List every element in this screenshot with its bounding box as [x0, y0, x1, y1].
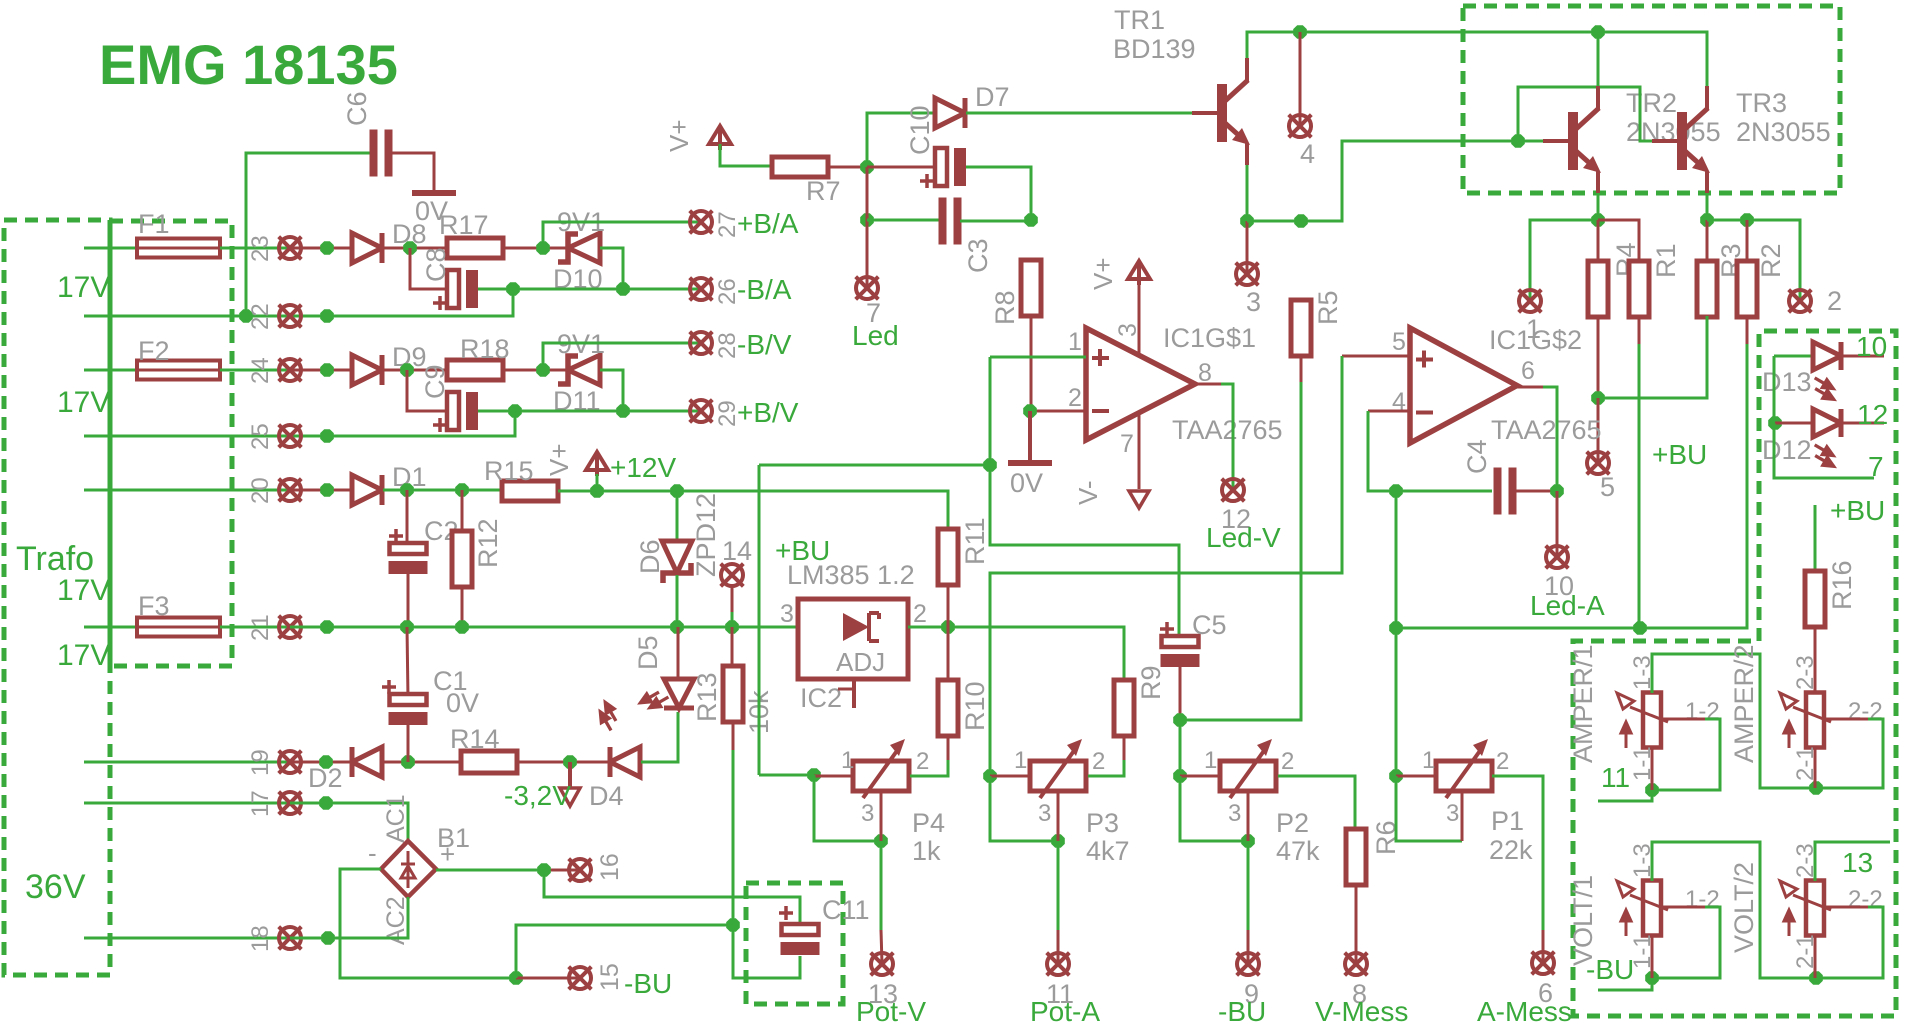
svg-text:3: 3 — [1246, 287, 1261, 317]
svg-text:1k: 1k — [912, 836, 941, 866]
zener D10 9V1 — [558, 233, 600, 263]
junction V+ 12V — [590, 484, 604, 498]
wire sense to P4 — [759, 774, 814, 777]
svg-text:C11: C11 — [822, 895, 870, 925]
op-amp IC1G$2 — [1410, 328, 1517, 443]
ground 0V G1 — [1008, 460, 1052, 466]
zener D11 9V1 — [558, 355, 600, 385]
svg-text:1-2: 1-2 — [1685, 886, 1720, 913]
wire P1 pin1 wire — [1396, 775, 1436, 778]
resistor R15 — [502, 481, 558, 501]
wire R7 to node — [828, 166, 867, 169]
svg-text:13: 13 — [1842, 847, 1873, 878]
svg-text:0V: 0V — [446, 688, 479, 718]
wire C1 top — [407, 627, 408, 698]
junction G1 pin2 — [1023, 404, 1037, 418]
svg-text:1: 1 — [841, 747, 854, 774]
svg-text:BD139: BD139 — [1113, 34, 1196, 64]
wire trafo to F3 — [84, 626, 137, 629]
wire pad16 pin — [544, 869, 580, 872]
svg-text:0V: 0V — [1010, 468, 1043, 498]
junction P4 pin3 — [874, 834, 888, 848]
svg-text:Led-V: Led-V — [1206, 522, 1281, 553]
wire A1 pin1-1 — [1651, 748, 1654, 790]
svg-text:D7: D7 — [975, 82, 1010, 112]
junction row21 R13 — [725, 620, 739, 634]
wire G1 out pin8 — [1195, 383, 1221, 386]
junction row19 pad — [319, 755, 333, 769]
potentiometer P4 — [853, 739, 909, 798]
wire C5 bottom — [1179, 667, 1182, 720]
svg-text:2: 2 — [1281, 748, 1294, 775]
resistor R6 — [1346, 829, 1366, 885]
wire R18 to D11 — [503, 369, 570, 372]
wire pad16 node to C11 plus — [544, 870, 800, 922]
wire G2 out — [1543, 387, 1557, 491]
wire pad15 pin — [516, 977, 580, 980]
svg-text:F3: F3 — [138, 591, 170, 621]
trimmer VOLT/1 — [1617, 881, 1668, 937]
pad 26 — [690, 278, 713, 301]
frame TR2 TR3 box (dashed) — [1463, 6, 1840, 193]
svg-text:C3: C3 — [963, 238, 993, 273]
svg-text:2-2: 2-2 — [1848, 698, 1883, 725]
svg-text:-3,2V: -3,2V — [504, 780, 571, 811]
junction TR2 base — [1511, 134, 1525, 148]
svg-text:TAA2765: TAA2765 — [1491, 415, 1602, 445]
pad 10 — [1546, 546, 1569, 569]
junction R5 top — [1294, 214, 1308, 228]
wire TR2-TR3 collector — [1598, 32, 1707, 86]
svg-text:21: 21 — [247, 614, 274, 641]
wire A2 wiper — [1816, 719, 1883, 788]
svg-text:16: 16 — [596, 853, 624, 881]
wire C1 bottom — [407, 725, 410, 762]
svg-text:Pot-A: Pot-A — [1030, 996, 1100, 1027]
wire R2 top pin — [1746, 220, 1749, 262]
junction -3.2V — [563, 755, 577, 769]
wire trafo row18 — [84, 937, 328, 940]
wire R11 bottom — [947, 585, 950, 627]
trimmer VOLT/2 — [1780, 881, 1831, 937]
wire R15 to R11 — [558, 491, 948, 530]
diode D7 — [935, 98, 965, 128]
junction V1 bottom — [1645, 971, 1659, 985]
svg-text:2: 2 — [1496, 748, 1509, 775]
svg-text:2-3: 2-3 — [1792, 655, 1819, 690]
wire R2 branch — [1707, 220, 1800, 301]
wire R14 to D4 — [517, 761, 610, 764]
svg-text:C8: C8 — [421, 247, 451, 282]
bridge B1 — [381, 841, 436, 897]
wire D6 top pin — [676, 491, 679, 542]
svg-text:C5: C5 — [1192, 610, 1227, 640]
wire G2 plus net — [990, 356, 1342, 776]
trimmer AMPER/1 — [1617, 693, 1668, 749]
svg-text:R14: R14 — [450, 724, 500, 754]
wire R6 to pad8 — [1355, 885, 1358, 964]
pad 27 — [690, 211, 713, 234]
capacitor C4 — [1494, 468, 1517, 515]
svg-text:2: 2 — [1068, 384, 1082, 412]
svg-text:V+: V+ — [1088, 257, 1118, 290]
junction R12 top — [455, 483, 469, 497]
svg-text:3: 3 — [780, 600, 794, 628]
wire +BU link — [1396, 627, 1640, 630]
svg-text:17V: 17V — [57, 386, 110, 419]
svg-text:1: 1 — [1014, 747, 1027, 774]
svg-text:R7: R7 — [806, 176, 841, 206]
wire pad9 pin — [1247, 930, 1250, 964]
svg-text:C4: C4 — [1462, 439, 1492, 474]
svg-text:47k: 47k — [1276, 836, 1320, 866]
wire LM385 pin2 to R9 — [908, 627, 1124, 682]
svg-text:P4: P4 — [912, 808, 945, 838]
wire row22 — [84, 289, 513, 316]
wire row21 main — [290, 626, 798, 629]
wire V1 wiper — [1652, 907, 1720, 978]
wire pad5 stem — [1597, 398, 1600, 463]
wire row25 — [84, 411, 515, 436]
svg-text:Pot-V: Pot-V — [856, 996, 926, 1027]
svg-text:VOLT/1: VOLT/1 — [1568, 875, 1598, 966]
pad 7 — [856, 277, 879, 300]
wire sense down — [758, 465, 761, 775]
junction row24 — [320, 363, 334, 377]
wire pad17 to B1 AC1 — [290, 803, 408, 844]
potentiometer P3 — [1030, 739, 1086, 798]
svg-text:1-2: 1-2 — [1685, 698, 1720, 725]
wire A1 wiper — [1652, 719, 1720, 790]
svg-text:R11: R11 — [960, 517, 990, 565]
wire C4 right wire — [1516, 490, 1556, 493]
IC2 LM385 body — [798, 599, 908, 679]
capacitor C11 — [779, 906, 820, 955]
wire A2 wiper pin — [1826, 718, 1868, 721]
svg-text:TR1: TR1 — [1114, 5, 1165, 35]
svg-text:3: 3 — [1446, 800, 1459, 827]
junction R13 -BU — [726, 918, 740, 932]
wire pad11 pin — [1057, 930, 1060, 964]
resistor R7 — [772, 157, 828, 177]
wire C2 bottom — [407, 574, 410, 627]
zener D6 ZPD12 — [662, 541, 692, 583]
junction row22 C6 — [239, 309, 253, 323]
wire node to C10 — [867, 166, 946, 169]
svg-text:3: 3 — [1038, 800, 1051, 827]
wire P3 loop — [990, 776, 1058, 841]
wire D9 node to C9 — [407, 370, 446, 411]
wire V2 top stub 13 — [1815, 842, 1890, 881]
wire TR2 base pin — [1518, 140, 1544, 143]
wire C3 left wire — [867, 219, 940, 222]
frame fuse box (dashed) — [110, 221, 232, 666]
svg-text:1: 1 — [1204, 747, 1217, 774]
wire V+12V stem — [596, 474, 599, 491]
svg-text:R5: R5 — [1313, 290, 1343, 325]
wire +B/A branch — [543, 222, 701, 248]
junction pad4 — [1293, 25, 1307, 39]
svg-text:7: 7 — [1868, 451, 1884, 482]
wire to TR23 base — [1301, 141, 1519, 221]
wire pad20 to D1 — [290, 489, 352, 492]
pad 12 — [1222, 479, 1245, 502]
wire C6 right to gnd — [392, 153, 434, 190]
svg-text:ADJ: ADJ — [836, 647, 885, 677]
wire A1 stub 11 — [1598, 790, 1652, 801]
svg-text:25: 25 — [247, 423, 274, 450]
led D5 — [638, 679, 694, 714]
wire G1 out to pad12 — [1221, 384, 1233, 490]
svg-text:-B/V: -B/V — [737, 329, 792, 360]
wire F3 to pad 21 — [220, 626, 302, 629]
wire P2 pin1 wire — [1180, 775, 1220, 778]
junction pad16 — [537, 863, 551, 877]
wire R16 bottom — [1814, 627, 1817, 694]
svg-text:1: 1 — [1422, 747, 1435, 774]
transistor TR1 BD139 — [1192, 58, 1250, 165]
junction R17-D10 — [536, 241, 550, 255]
junction C3 left — [860, 213, 874, 227]
svg-text:18: 18 — [247, 925, 274, 952]
potentiometer P2 — [1220, 739, 1276, 798]
wire pad10 stem — [1556, 491, 1559, 557]
wire G1 pin1 — [990, 356, 1086, 359]
wire TR3 emitter — [1706, 193, 1709, 221]
wire D5 top — [677, 627, 680, 679]
pad 4 — [1289, 115, 1312, 138]
svg-text:14: 14 — [722, 536, 752, 566]
svg-text:+BU: +BU — [1652, 439, 1707, 470]
op-amp IC1G$1 — [1086, 328, 1195, 440]
wire P3 pin1 wire — [990, 775, 1030, 778]
fuse F3 — [137, 618, 220, 637]
wire G2 pin5 — [1342, 355, 1410, 358]
svg-text:P1: P1 — [1491, 806, 1524, 836]
wire R3 top — [1706, 220, 1709, 262]
wire trafo row20 — [84, 489, 328, 492]
wire V+ to R7 — [720, 144, 772, 166]
diode D1 — [352, 475, 382, 505]
wire P4 pin1 wire — [814, 775, 854, 778]
svg-text:Trafo: Trafo — [16, 540, 94, 578]
svg-text:P3: P3 — [1086, 808, 1119, 838]
svg-text:R8: R8 — [990, 290, 1020, 325]
ground 0V at C6 — [412, 190, 456, 196]
resistor R2 — [1737, 261, 1757, 317]
wire P4 loop — [814, 775, 881, 841]
svg-text:+12V: +12V — [610, 452, 676, 483]
wire -B/V branch — [543, 343, 701, 370]
capacitor C1 — [382, 680, 428, 725]
wire R4 top — [1597, 220, 1600, 262]
wire D12 anode — [1775, 422, 1814, 425]
resistor R3 — [1697, 261, 1717, 317]
wire P1 pin2 to pad6 — [1492, 776, 1543, 930]
svg-text:17V: 17V — [57, 574, 110, 607]
svg-text:4k7: 4k7 — [1086, 836, 1130, 866]
junction C8 right — [506, 282, 520, 296]
svg-text:D2: D2 — [308, 763, 343, 793]
junction sense mid — [983, 458, 997, 472]
pad 11 — [1047, 953, 1070, 976]
svg-text:TAA2765: TAA2765 — [1172, 415, 1283, 445]
wire pin4 node to P1 — [1395, 628, 1398, 776]
led D4 — [594, 700, 640, 777]
wire V2 pin2-1 — [1814, 936, 1817, 978]
fuse F1 — [137, 239, 220, 258]
wire C3 right — [960, 220, 1031, 223]
transistor TR3 2N3055 — [1652, 86, 1710, 193]
junction R4 sense — [1591, 391, 1605, 405]
wire TR2 collector — [1597, 32, 1600, 86]
wire R13 bottom — [732, 750, 735, 925]
frame C11 box (dashed) — [746, 883, 843, 1004]
resistor R9 — [1114, 680, 1134, 736]
resistor R16 — [1805, 571, 1825, 627]
svg-text:IC2: IC2 — [800, 683, 842, 713]
junction P4 pin1 — [807, 768, 821, 782]
wire pad14 stem — [731, 587, 734, 612]
junction row23 — [320, 241, 334, 255]
wire P3 pin2 to R9 — [1088, 775, 1124, 778]
wire V1 top — [1652, 842, 1816, 978]
wire -BU to C11 minus — [733, 925, 800, 978]
svg-text:5: 5 — [1600, 472, 1615, 502]
svg-text:C10: C10 — [905, 105, 935, 155]
svg-text:17: 17 — [247, 790, 274, 817]
wire V1 wiper pin — [1663, 906, 1705, 909]
pad 23 — [279, 237, 302, 260]
wire R5 bottom pin — [1300, 355, 1303, 382]
wire C2 top — [406, 490, 409, 546]
svg-text:R15: R15 — [484, 456, 534, 486]
wire D13 anode — [1774, 355, 1814, 358]
wire R1 top — [1598, 220, 1639, 262]
pad 20 — [279, 479, 302, 502]
wire TR3 base route — [1518, 87, 1653, 141]
pad 17 — [279, 792, 302, 815]
wire R8 bottom — [1030, 316, 1033, 411]
svg-text:6: 6 — [1521, 357, 1535, 385]
wire R4 bottom — [1597, 316, 1600, 398]
diode D8 — [352, 233, 382, 263]
pad 3 — [1236, 263, 1259, 286]
svg-text:-BU: -BU — [1218, 996, 1266, 1027]
junction row21 D6 — [670, 620, 684, 634]
svg-text:AMPER/1: AMPER/1 — [1568, 644, 1598, 763]
wire A1 wiper pin — [1663, 718, 1705, 721]
wire R9 bottom pin — [1123, 735, 1126, 760]
wire D13 cathode — [1841, 355, 1884, 358]
svg-text:V-: V- — [1073, 480, 1103, 505]
wire pad14 stem b — [731, 612, 734, 627]
svg-text:D6: D6 — [635, 539, 665, 574]
junction R11 R10 — [941, 620, 955, 634]
pad 16 — [569, 859, 592, 882]
svg-text:5: 5 — [1392, 328, 1406, 356]
svg-text:12: 12 — [1857, 399, 1888, 430]
wire trafo row17 — [84, 802, 328, 805]
wire R2 bottom to +BU — [1640, 344, 1747, 628]
wire A2 pin2-1 — [1814, 748, 1817, 788]
svg-text:19: 19 — [247, 749, 274, 776]
svg-text:17V: 17V — [57, 271, 110, 304]
wire R12 top — [461, 490, 464, 532]
wire V2 wiper pin — [1826, 906, 1868, 909]
svg-text:+BU: +BU — [775, 535, 830, 566]
resistor R12 — [452, 531, 472, 587]
resistor R18 — [447, 360, 503, 380]
junction V2 bottom — [1809, 971, 1823, 985]
svg-text:20: 20 — [247, 477, 274, 504]
svg-text:D13: D13 — [1762, 367, 1812, 397]
pad 14 — [721, 564, 744, 587]
wire D12 cathode — [1841, 422, 1884, 425]
svg-text:3: 3 — [861, 800, 874, 827]
svg-text:R10: R10 — [960, 681, 990, 731]
wire pad23 to D8 — [290, 247, 352, 250]
svg-text:-: - — [368, 838, 377, 868]
wire R9 bottom to P3 — [1088, 760, 1124, 776]
svg-text:7: 7 — [1120, 430, 1134, 458]
junction pad15 — [509, 971, 523, 985]
wire sense to R3 — [1598, 316, 1707, 398]
wire F1 to pad 23 — [220, 247, 328, 250]
pad 15 — [569, 967, 592, 990]
wire D8 node to C8 — [410, 248, 446, 289]
svg-text:3: 3 — [1228, 800, 1241, 827]
svg-text:AMPER/2: AMPER/2 — [1729, 644, 1759, 763]
svg-text:22: 22 — [247, 303, 274, 330]
wire node up to D7 — [867, 113, 936, 167]
resistor R8 — [1021, 260, 1041, 316]
wire pad13 pin — [881, 930, 882, 964]
wire pad18 to B1 AC2 — [290, 897, 408, 938]
wire pad3 stem — [1246, 221, 1249, 274]
pad 1 — [1519, 290, 1542, 313]
pad 18 — [279, 927, 302, 950]
svg-text:Led-A: Led-A — [1530, 590, 1605, 621]
ground 0V G1 stem — [1028, 411, 1032, 461]
svg-text:4: 4 — [1300, 139, 1315, 169]
resistor R5 — [1291, 300, 1311, 356]
wire P2 loop — [1180, 776, 1248, 841]
pad 24 — [279, 359, 302, 382]
wire C10 right — [966, 167, 1031, 220]
svg-text:36V: 36V — [25, 868, 86, 906]
wire B1 plus to pad16 — [436, 869, 544, 872]
pad 25 — [279, 425, 302, 448]
wire trafo to F1 — [84, 247, 137, 250]
wire G1 pin2 — [1030, 410, 1086, 413]
wire R12 bottom — [461, 587, 464, 627]
wire V1 stub -BU — [1598, 978, 1652, 990]
capacitor C5 — [1160, 622, 1200, 667]
wire D9 to R18 — [383, 369, 447, 372]
frame meter/led box (dashed) — [1573, 331, 1896, 1016]
wire D11 to +B/V row — [600, 370, 623, 411]
svg-text:R12: R12 — [473, 518, 503, 568]
junction D9-R18 — [400, 363, 414, 377]
svg-text:10: 10 — [1856, 331, 1887, 362]
junction C5 bottom — [1173, 713, 1187, 727]
wire pad19 to D2 — [290, 761, 352, 764]
wire R17 to D10 — [503, 247, 570, 250]
svg-text:TR2: TR2 — [1626, 88, 1677, 118]
wire trafo row19 — [84, 761, 328, 764]
junction TR2 emitter — [1591, 213, 1605, 227]
